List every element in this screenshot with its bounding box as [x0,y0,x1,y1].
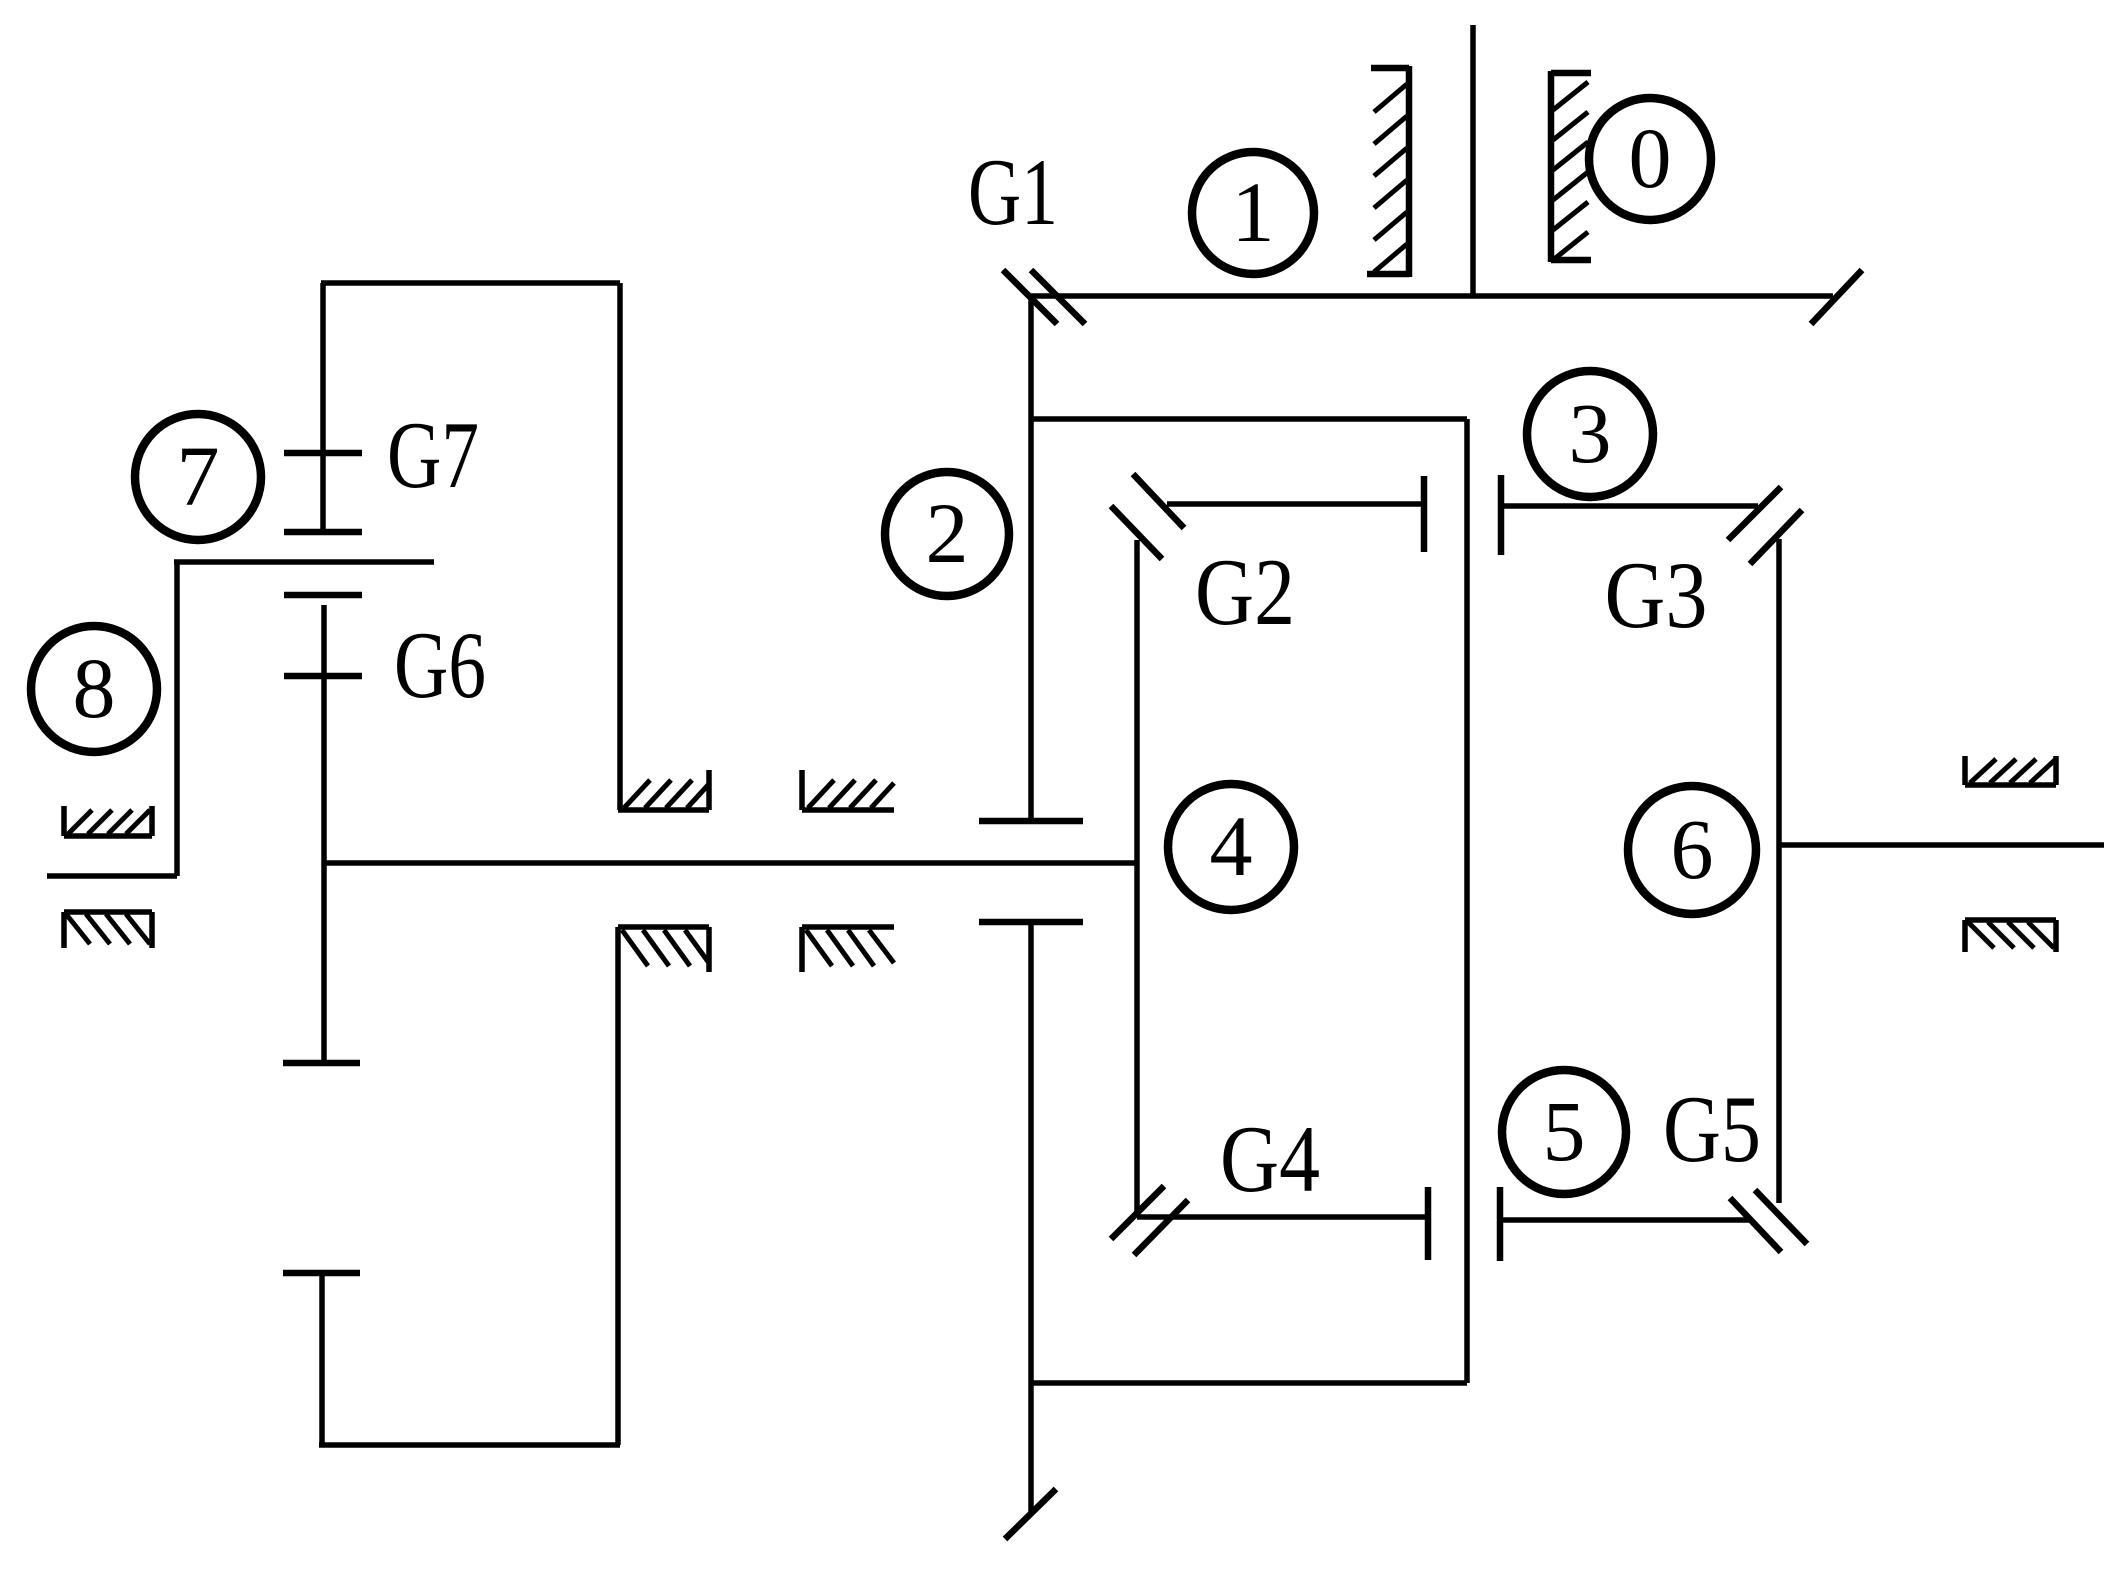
clutch crossbar lower [979,919,1083,926]
svg-text:G1: G1 [968,139,1058,245]
ground wall left of input shaft [1367,66,1409,277]
gear G3 line [1501,503,1758,509]
right output axis [1779,842,2104,848]
G6 shaft vertical [321,605,327,1063]
circle node 8 [31,626,157,752]
G2 left double slash [1111,474,1184,559]
svg-text:5: 5 [1543,1083,1586,1179]
svg-text:G3: G3 [1605,542,1708,648]
circle node 3 [1527,371,1653,497]
left branch shaft horizontal [174,559,434,565]
left ground hatch bottom [64,912,152,948]
left ground hatch top [64,806,152,836]
G5 right double slash [1730,1190,1807,1252]
output bearing hatch bottom [1965,920,2056,952]
svg-text:3: 3 [1569,385,1612,481]
G1 right slash [1811,270,1862,324]
G3 left tick [1498,475,1505,555]
node 2 branch shaft lower [1028,922,1034,1512]
G2 right tick [1421,476,1428,552]
node 1 circle [1192,152,1314,274]
gear G7 crossbar lower [284,529,362,536]
left frame top line [321,280,620,286]
gear G6 crossbar mid [284,673,362,680]
bottom frame line left [319,1442,620,1448]
G6 shaft end crossbar [283,1060,360,1067]
frame right vertical [1464,419,1470,1383]
lower crossbar [283,1270,360,1277]
circle node 5 [1502,1070,1626,1194]
inner vertical shaft (node 4) [1134,540,1140,1217]
hatch foot on carrier top (below axis) [618,927,709,972]
G5 left tick [1497,1187,1504,1261]
hatch foot on frame bottom (above axis) [618,770,709,810]
G1 left double slash [1003,270,1085,324]
gear G1 carrier line [1031,293,1833,299]
circle node 4 [1168,784,1294,910]
left frame left vertical [320,283,326,533]
node 8 end tick [47,873,177,879]
gear G7 crossbar upper [284,450,362,457]
svg-text:4: 4 [1210,798,1253,894]
link from branch shaft to frame [1031,416,1467,422]
G4 right tick [1425,1187,1432,1260]
lower vertical link [319,1273,325,1445]
svg-text:G5: G5 [1663,1076,1761,1182]
input shaft (vertical, top) [1470,25,1476,296]
circle node 7 [135,414,261,540]
svg-text:7: 7 [177,428,220,524]
output bearing hatch top [1965,756,2056,785]
G3 right double slash [1728,487,1802,564]
frame bottom line [1031,1380,1467,1386]
left frame right vertical [617,283,623,810]
gear G6 crossbar upper [284,592,362,599]
svg-text:G2: G2 [1195,539,1295,645]
free ground hatch above axis [802,770,894,810]
circle node 6 [1628,786,1756,914]
G4 left double slash [1111,1186,1188,1255]
node 2 branch shaft upper [1028,296,1034,820]
svg-text:1: 1 [1232,164,1275,260]
node 8 branch vertical [174,562,180,876]
svg-text:G7: G7 [387,402,479,508]
gear G4 line [1137,1214,1428,1220]
free ground hatch below axis [802,927,894,972]
svg-text:6: 6 [1671,801,1714,897]
bottom shaft end slash [1005,1489,1056,1539]
svg-text:G4: G4 [1220,1106,1320,1212]
svg-text:2: 2 [926,485,969,581]
ground wall right of input shaft [1551,71,1591,262]
svg-text:0: 0 [1629,110,1672,206]
circle node 2 [885,472,1009,596]
main left axis shaft [324,860,1137,866]
gear G5 line [1501,1217,1750,1223]
svg-text:8: 8 [73,640,116,736]
node 0 circle [1589,98,1711,220]
carrier right vertical lower [615,927,621,1445]
gear G2 line [1167,501,1424,507]
right frame vertical [1776,539,1782,1203]
clutch crossbar upper [979,818,1083,825]
svg-text:G6: G6 [394,612,486,718]
